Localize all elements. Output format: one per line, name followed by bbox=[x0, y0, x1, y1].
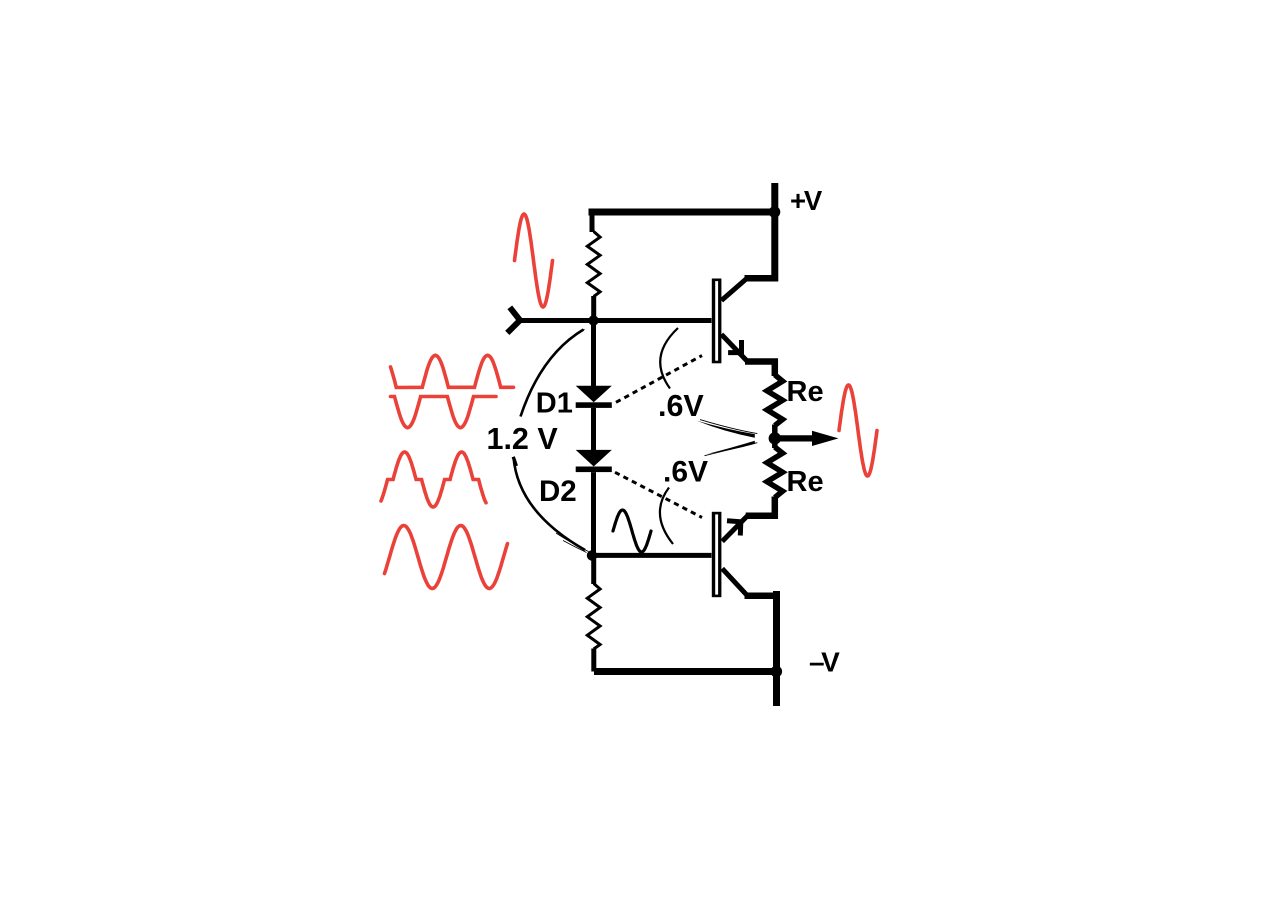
transistor Q2 base bar bbox=[712, 512, 722, 597]
waveform distorted sine red bbox=[381, 452, 486, 507]
pointer curve lower (.6V to node) bbox=[708, 441, 755, 454]
svg-text:Re: Re bbox=[787, 376, 824, 408]
dashed line D2 to Q2 emitter bbox=[615, 472, 702, 517]
node -V junction dot bbox=[771, 666, 783, 678]
transistor Q1 collector bbox=[721, 278, 747, 300]
transistor Q2 emitter bbox=[746, 497, 775, 516]
waveform crossover halves lower red bbox=[391, 397, 497, 428]
wire output bbox=[775, 435, 822, 441]
wire base node to D1 bbox=[591, 321, 596, 387]
resistor R1 upper bias bbox=[587, 232, 600, 297]
waveform clean sine red bbox=[385, 526, 508, 589]
diode D1 bbox=[576, 386, 612, 408]
svg-text:–V: –V bbox=[809, 647, 840, 678]
wire bottom rail bbox=[594, 668, 777, 675]
waveform small black sine bbox=[613, 510, 651, 552]
transistor Q1 emitter arrowhead bbox=[728, 340, 741, 353]
resistor R2 lower bias bbox=[587, 584, 600, 650]
diode D2 bbox=[576, 450, 612, 472]
node +V junction dot bbox=[769, 206, 781, 218]
resistor Re lower bbox=[767, 447, 783, 498]
svg-text:+V: +V bbox=[790, 185, 823, 216]
wire top rail bbox=[590, 216, 595, 233]
waveform output sine red bbox=[839, 385, 877, 476]
power +V line bbox=[771, 183, 778, 282]
transistor Q2 emitter arrowhead bbox=[727, 521, 741, 536]
input terminal chevron bbox=[507, 307, 520, 333]
node base junction dot bbox=[588, 315, 598, 325]
svg-text:D2: D2 bbox=[539, 475, 577, 508]
svg-text:.6V: .6V bbox=[658, 389, 704, 423]
wire D2 to lower node bbox=[591, 472, 596, 557]
wire Re junctions bbox=[772, 425, 778, 449]
output arrowhead bbox=[812, 431, 839, 446]
wire input base bbox=[518, 318, 712, 323]
svg-text:Re: Re bbox=[787, 466, 824, 498]
svg-text:D1: D1 bbox=[536, 387, 573, 419]
node output dot bbox=[769, 432, 781, 444]
power -V line bbox=[773, 591, 780, 706]
waveform crossover halves upper red bbox=[391, 355, 514, 387]
pointer curve upper (.6V to node) bbox=[697, 421, 755, 438]
arc across dashed lower bbox=[660, 488, 673, 545]
brace arc lower (1.2V) bbox=[514, 457, 586, 550]
transistor Q2 collector bbox=[722, 569, 747, 596]
transistor Q1 base bar bbox=[712, 279, 722, 364]
resistor Re upper bbox=[767, 375, 783, 426]
transistor Q1 emitter bbox=[721, 334, 747, 361]
node lower junction dot bbox=[587, 550, 597, 560]
svg-text:.6V: .6V bbox=[663, 456, 708, 489]
waveform input sine red bbox=[515, 214, 553, 307]
dashed line D1 to Q1 emitter bbox=[616, 356, 702, 403]
wire lower base bbox=[592, 553, 712, 558]
brace arc upper (1.2V) bbox=[521, 330, 584, 417]
wire lower node to R2 bbox=[591, 555, 596, 584]
wire R1 bottom to base node bbox=[591, 296, 596, 323]
svg-text:1.2 V: 1.2 V bbox=[487, 422, 559, 456]
arc across dashed upper bbox=[660, 328, 678, 389]
wire R2 to bottom rail bbox=[591, 649, 596, 672]
wire D1 to D2 bbox=[591, 408, 596, 450]
